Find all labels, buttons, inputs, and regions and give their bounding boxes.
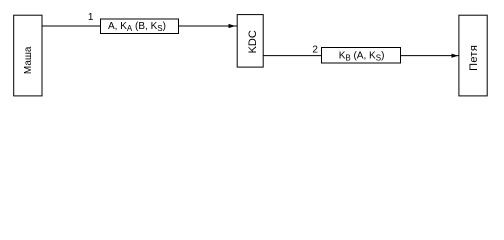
svg-text:Петя: Петя bbox=[468, 45, 480, 71]
block Petya (Петя) bbox=[459, 15, 487, 96]
svg-text:A, KA (B, KS): A, KA (B, KS) bbox=[108, 21, 166, 33]
svg-text:1: 1 bbox=[88, 12, 94, 23]
wire from message box 1 to KDC bbox=[179, 25, 238, 27]
wire from Маша to message box 1 bbox=[42, 25, 101, 27]
svg-text:2: 2 bbox=[312, 45, 318, 56]
block KDC bbox=[237, 15, 263, 68]
arrowhead into Петя bbox=[452, 54, 459, 58]
message box 2 bbox=[322, 48, 401, 64]
wire from KDC to message box 2 bbox=[263, 55, 321, 57]
wire from message box 2 to Петя bbox=[401, 55, 459, 57]
block Masha (Маша) bbox=[14, 15, 42, 96]
svg-text:KDC: KDC bbox=[247, 30, 259, 53]
message box 1 bbox=[101, 19, 179, 34]
svg-text:Маша: Маша bbox=[23, 46, 34, 74]
arrowhead into KDC bbox=[229, 24, 236, 28]
